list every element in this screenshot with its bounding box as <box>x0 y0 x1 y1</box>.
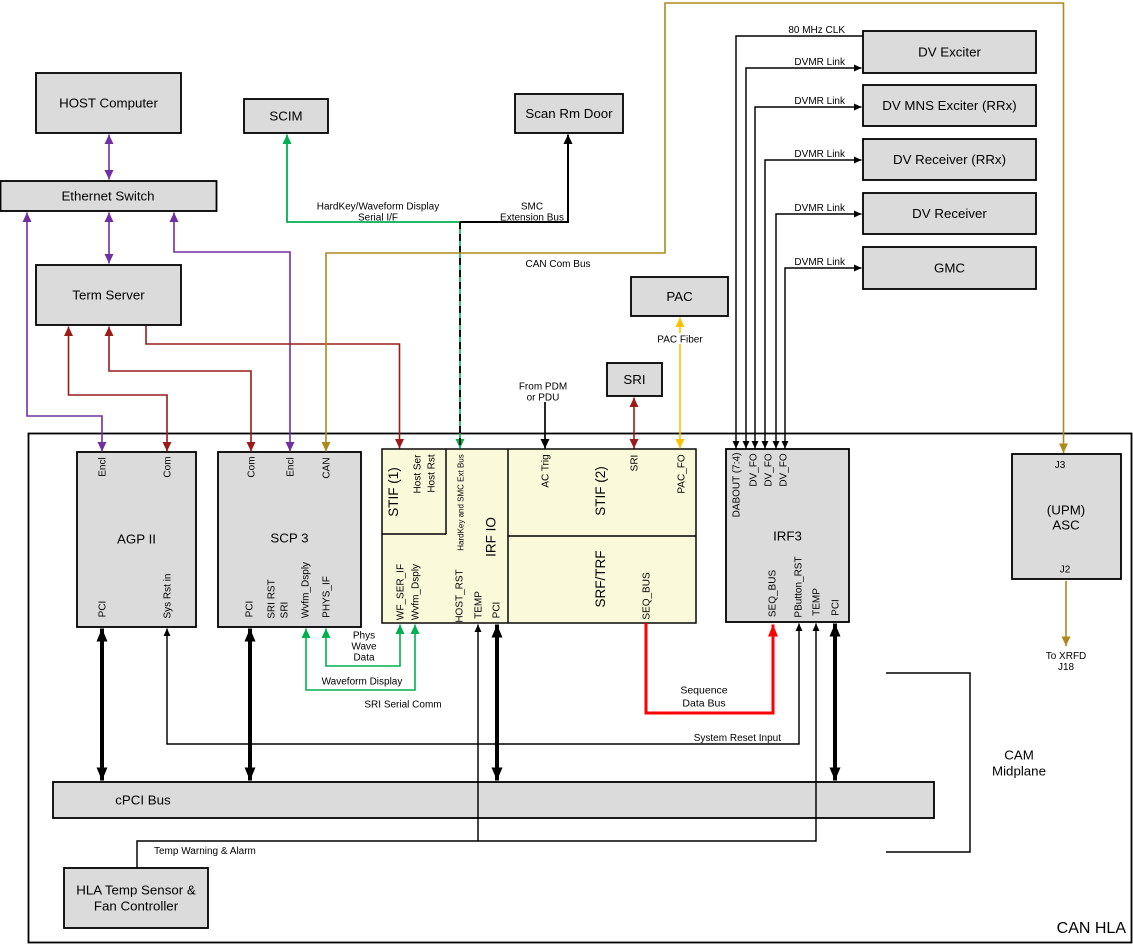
svg-text:HOST Computer: HOST Computer <box>59 96 158 111</box>
svg-text:Data: Data <box>353 653 375 664</box>
svg-text:HardKey/Waveform Display: HardKey/Waveform Display <box>317 202 439 213</box>
svg-text:Wave: Wave <box>351 642 377 653</box>
svg-text:Com: Com <box>247 456 258 477</box>
wire Waveform Display (Wvfm_Dsply - Wvfm_Dsply) <box>306 625 415 691</box>
svg-text:J2: J2 <box>1060 565 1071 576</box>
svg-text:Midplane: Midplane <box>992 764 1046 779</box>
box IRF3 <box>726 449 849 622</box>
svg-text:SRI: SRI <box>623 372 645 387</box>
box SRI <box>607 363 662 396</box>
svg-text:PHYS_IF: PHYS_IF <box>322 576 333 618</box>
svg-text:SCP 3: SCP 3 <box>270 531 308 546</box>
svg-text:J18: J18 <box>1058 662 1075 673</box>
svg-text:TEMP: TEMP <box>812 588 823 616</box>
svg-text:CAM: CAM <box>1004 748 1034 763</box>
svg-text:Wvfm_Dsply: Wvfm_Dsply <box>411 564 422 620</box>
svg-text:(UPM): (UPM) <box>1047 503 1085 518</box>
box GMC <box>863 247 1036 289</box>
wire DVMR Link 3 (IRF3 - DV Receiver (RRx)) <box>765 160 862 449</box>
svg-text:STIF (1): STIF (1) <box>386 467 401 517</box>
svg-text:SRF/TRF: SRF/TRF <box>593 551 608 608</box>
svg-text:DVMR Link: DVMR Link <box>794 96 846 107</box>
box Scan Rm Door <box>515 94 623 133</box>
bracket CAM Midplane <box>886 673 970 852</box>
wire DVMR Link 5 (IRF3 - GMC) <box>785 268 862 449</box>
svg-text:HOST_RST: HOST_RST <box>455 569 466 622</box>
svg-text:HardKey and SMC Ext Bus: HardKey and SMC Ext Bus <box>457 454 466 550</box>
svg-text:Serial I/F: Serial I/F <box>358 213 398 224</box>
svg-text:DV Exciter: DV Exciter <box>918 45 981 60</box>
svg-text:From PDM: From PDM <box>519 382 567 393</box>
wire DVMR Link 1 (IRF3 - DV Exciter) <box>746 68 862 449</box>
wire HOST Computer - Ethernet Switch <box>108 135 110 180</box>
svg-text:Host Ser: Host Ser <box>413 454 424 494</box>
box Ethernet Switch <box>1 181 217 211</box>
wire SCIM - HardKey/Waveform Display Serial I/F <box>287 135 460 223</box>
wire SRI - STIF (2) SRI pin <box>633 398 635 449</box>
wire SCP 3 PCI - cPCI Bus <box>248 629 252 781</box>
svg-text:or PDU: or PDU <box>527 393 560 404</box>
wire Temp branch to IRF IO TEMP <box>477 625 479 842</box>
box DV Receiver <box>863 193 1036 234</box>
svg-text:DV Receiver: DV Receiver <box>912 206 987 221</box>
wire From PDM or PDU - AC Trig <box>544 402 546 449</box>
label PAC Fiber <box>654 333 706 346</box>
svg-text:PCI: PCI <box>98 601 109 618</box>
wire Temp Warning & Alarm (HLA - IRF IO TEMP, IRF3 TEMP) <box>137 624 816 869</box>
svg-text:ASC: ASC <box>1052 518 1080 533</box>
svg-text:DVMR Link: DVMR Link <box>794 203 846 214</box>
svg-text:PCI: PCI <box>245 601 256 618</box>
box DV Receiver (RRx) <box>863 139 1036 180</box>
svg-text:PAC Fiber: PAC Fiber <box>657 335 703 346</box>
box SCP 3 <box>218 452 361 627</box>
wire AGP II PCI - cPCI Bus <box>100 629 104 781</box>
box DV MNS Exciter (RRx) <box>863 85 1036 126</box>
svg-text:Sequence: Sequence <box>680 685 727 697</box>
svg-text:Temp Warning & Alarm: Temp Warning & Alarm <box>154 846 256 857</box>
svg-text:Com: Com <box>163 456 174 477</box>
svg-text:PAC: PAC <box>666 289 693 304</box>
svg-text:AGP II: AGP II <box>117 532 156 547</box>
wire SMC Extension Bus to Scan Rm Door <box>460 135 568 223</box>
wire Term Server - STIF (1) <box>146 326 400 449</box>
wire Ethernet Switch - Term Server <box>108 213 110 264</box>
label HardKey/Waveform Display Serial I/F <box>317 202 439 224</box>
svg-text:DVMR Link: DVMR Link <box>794 149 846 160</box>
box DV Exciter <box>863 31 1036 73</box>
svg-text:DV MNS Exciter (RRx): DV MNS Exciter (RRx) <box>882 98 1016 113</box>
wire Term Server - SCP 3 Com <box>109 327 251 452</box>
svg-text:IRF IO: IRF IO <box>484 517 499 557</box>
svg-text:Sys Rst in: Sys Rst in <box>163 573 174 618</box>
svg-text:AC Trig: AC Trig <box>541 454 552 487</box>
svg-text:80 MHz CLK: 80 MHz CLK <box>788 25 845 36</box>
wire Term Server - AGP II Com <box>69 327 168 452</box>
svg-text:CAN HLA: CAN HLA <box>1057 920 1127 937</box>
box cPCI Bus <box>53 782 934 818</box>
wire J2 - To XRFD J18 <box>1065 581 1067 646</box>
svg-text:Encl: Encl <box>98 457 109 476</box>
svg-text:Waveform Display: Waveform Display <box>322 677 403 688</box>
svg-text:Phys: Phys <box>353 631 375 642</box>
label Phys Wave Data <box>351 631 377 664</box>
box PAC <box>631 277 728 316</box>
svg-text:DABOUT (7:4): DABOUT (7:4) <box>732 453 743 518</box>
svg-text:PAC_FO: PAC_FO <box>677 454 688 493</box>
svg-text:DVMR Link: DVMR Link <box>794 57 846 68</box>
wire Ethernet Switch - AGP II Encl <box>27 213 102 452</box>
svg-text:To XRFD: To XRFD <box>1046 651 1087 662</box>
svg-text:PCI: PCI <box>831 599 842 616</box>
svg-text:WF_SER_IF: WF_SER_IF <box>396 564 407 620</box>
svg-text:PCI: PCI <box>492 602 503 619</box>
svg-text:CAN Com Bus: CAN Com Bus <box>525 259 590 270</box>
svg-text:J3: J3 <box>1055 460 1066 471</box>
box Term Server <box>36 265 181 325</box>
svg-text:Ethernet Switch: Ethernet Switch <box>61 189 154 204</box>
wire Sequence Data Bus (SRF/TRF SEQ_BUS - IRF3 SEQ_BUS) <box>646 623 773 713</box>
svg-text:Term Server: Term Server <box>72 288 145 303</box>
svg-text:DV Receiver (RRx): DV Receiver (RRx) <box>893 152 1006 167</box>
label CAM Midplane <box>992 748 1046 779</box>
svg-text:SRI: SRI <box>280 602 291 619</box>
svg-text:Scan Rm Door: Scan Rm Door <box>525 106 613 121</box>
svg-text:DV_FO: DV_FO <box>764 453 775 487</box>
svg-text:DV_FO: DV_FO <box>749 453 760 487</box>
svg-text:SMC: SMC <box>521 202 543 213</box>
svg-text:SRI: SRI <box>630 455 641 472</box>
svg-text:SEQ_BUS: SEQ_BUS <box>642 572 653 620</box>
svg-text:SCIM: SCIM <box>269 109 302 124</box>
label SMC Extension Bus <box>500 202 564 224</box>
container CAN HLA <box>29 434 1132 943</box>
wire IRF3 PCI - cPCI Bus <box>833 624 837 781</box>
svg-text:DV_FO: DV_FO <box>779 453 790 487</box>
box SCIM <box>244 99 328 133</box>
label To XRFD J18 <box>1046 651 1087 673</box>
svg-text:Fan Controller: Fan Controller <box>94 899 179 914</box>
wire Ethernet Switch - SCP 3 Encl <box>174 213 290 452</box>
svg-text:PButton_RST: PButton_RST <box>794 556 805 617</box>
svg-text:SRI Serial Comm: SRI Serial Comm <box>364 700 441 711</box>
wire DVMR Link 4 (IRF3 - DV Receiver) <box>776 214 862 449</box>
wire DVMR Link 2 (IRF3 - DV MNS Exciter) <box>755 107 862 449</box>
svg-text:DVMR Link: DVMR Link <box>794 257 846 268</box>
svg-text:SEQ_BUS: SEQ_BUS <box>768 570 779 618</box>
wire HardKey and SMC Ext Bus (green with black dashes) <box>459 222 461 449</box>
svg-text:TEMP: TEMP <box>474 591 485 619</box>
wire 80 MHz CLK (IRF3 - DV Exciter) <box>736 36 863 449</box>
wire System Reset Input (AGP II Sys Rst in - IRF3 PButton_RST) <box>167 624 799 745</box>
wire PAC Fiber <box>679 318 681 449</box>
svg-text:HLA Temp Sensor &: HLA Temp Sensor & <box>76 883 196 898</box>
wire CAN Com Bus (SCP 3 CAN - UPM ASC J3) <box>326 3 1064 453</box>
svg-text:SRI RST: SRI RST <box>267 579 278 618</box>
svg-text:STIF (2): STIF (2) <box>593 466 608 516</box>
svg-text:CAN: CAN <box>322 457 333 478</box>
svg-text:IRF3: IRF3 <box>773 529 802 544</box>
label Sequence Data Bus <box>680 685 727 710</box>
box HOST Computer <box>36 73 181 133</box>
block IRF IO (yellow) <box>382 449 696 623</box>
label From PDM or PDU <box>519 382 567 404</box>
svg-text:cPCI Bus: cPCI Bus <box>115 793 171 808</box>
box (UPM) ASC <box>1012 454 1121 579</box>
svg-text:Extension Bus: Extension Bus <box>500 213 564 224</box>
box AGP II <box>77 452 196 627</box>
wire Phys Wave Data (PHYS_IF - WF_SER_IF) <box>326 625 400 667</box>
svg-text:GMC: GMC <box>934 261 965 276</box>
svg-text:Encl: Encl <box>286 457 297 476</box>
svg-text:System Reset Input: System Reset Input <box>694 733 781 744</box>
box HLA Temp Sensor & Fan Controller <box>64 868 208 928</box>
wire IRF IO PCI - cPCI Bus <box>495 625 499 781</box>
svg-text:Wvfm_Dsply: Wvfm_Dsply <box>301 562 312 618</box>
svg-text:Host Rst: Host Rst <box>427 454 438 493</box>
svg-text:Data Bus: Data Bus <box>682 698 725 710</box>
